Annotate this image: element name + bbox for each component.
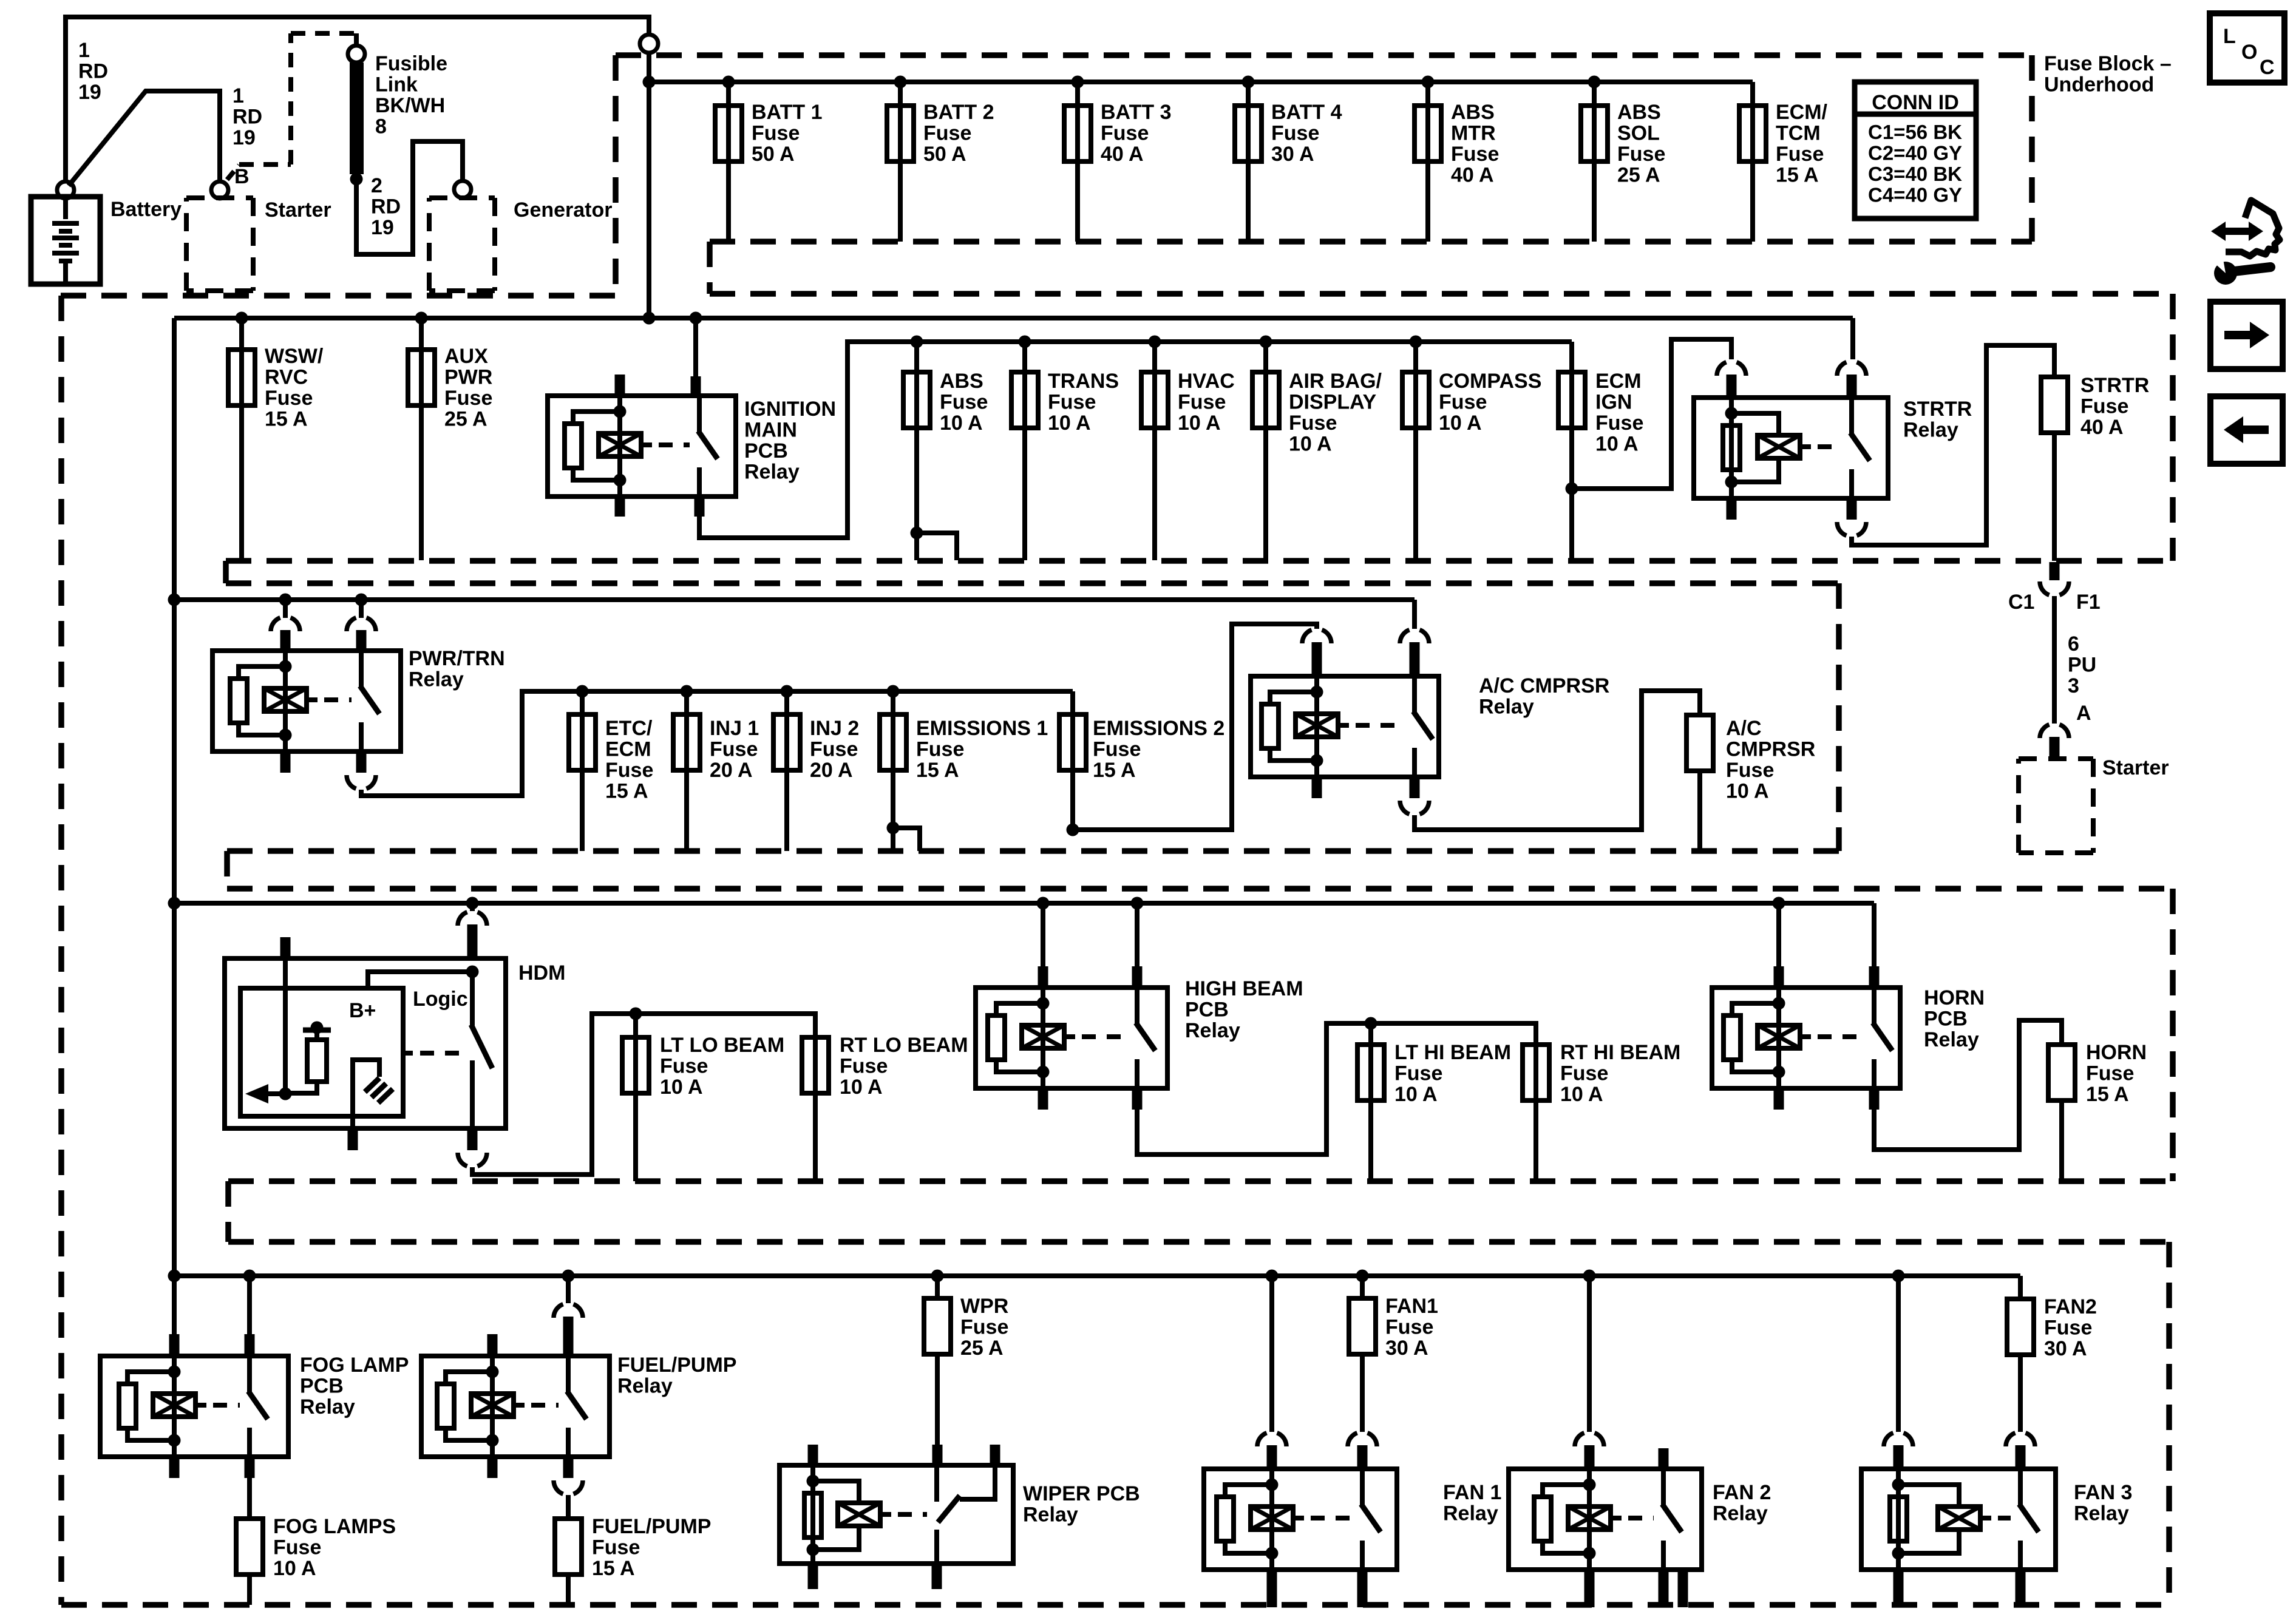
svg-text:30 A: 30 A [2044,1337,2087,1360]
svg-text:Fuse: Fuse [2086,1062,2134,1085]
svg-text:MTR: MTR [1451,122,1496,145]
svg-text:FOG LAMPS: FOG LAMPS [273,1515,396,1538]
svg-text:C1=56 BK: C1=56 BK [1868,121,1962,143]
svg-text:Fuse: Fuse [840,1055,888,1078]
svg-text:Fuse: Fuse [2044,1317,2092,1340]
svg-text:19: 19 [371,216,394,239]
svg-text:PWR: PWR [444,366,492,389]
svg-text:10 A: 10 A [1289,433,1332,456]
svg-text:15 A: 15 A [1093,759,1136,782]
svg-text:Starter: Starter [2102,756,2169,779]
svg-text:FUEL/PUMP: FUEL/PUMP [617,1354,736,1377]
svg-text:30 A: 30 A [1271,143,1314,166]
svg-text:AUX: AUX [444,345,488,368]
svg-text:30 A: 30 A [1385,1337,1428,1360]
svg-text:Relay: Relay [1903,419,1958,442]
svg-text:C3=40 BK: C3=40 BK [1868,163,1962,185]
svg-text:20 A: 20 A [810,759,853,782]
svg-text:Relay: Relay [1479,696,1534,719]
svg-text:Relay: Relay [744,461,800,484]
svg-text:C: C [2260,56,2275,79]
svg-text:15 A: 15 A [1776,164,1819,187]
svg-text:Fuse: Fuse [273,1536,321,1559]
svg-text:Fuse Block –: Fuse Block – [2044,52,2172,75]
svg-text:40 A: 40 A [1451,164,1494,187]
svg-text:BATT 1: BATT 1 [752,101,822,124]
svg-text:B: B [234,165,250,188]
svg-text:Fuse: Fuse [940,391,988,414]
svg-text:Fuse: Fuse [1439,391,1487,414]
svg-text:ABS: ABS [1451,101,1495,124]
svg-text:Fuse: Fuse [1595,412,1643,435]
svg-text:Fuse: Fuse [1385,1316,1433,1339]
svg-text:10 A: 10 A [273,1557,316,1580]
svg-text:C2=40 GY: C2=40 GY [1868,142,1962,164]
svg-text:RT LO BEAM: RT LO BEAM [840,1034,968,1057]
svg-text:Fuse: Fuse [1048,391,1096,414]
svg-text:Fuse: Fuse [1178,391,1226,414]
svg-text:INJ 1: INJ 1 [710,717,759,740]
svg-text:10 A: 10 A [1439,412,1482,435]
svg-text:15 A: 15 A [592,1557,635,1580]
svg-text:RT HI BEAM: RT HI BEAM [1560,1041,1680,1064]
svg-text:RVC: RVC [265,366,308,389]
svg-text:Fuse: Fuse [1451,143,1499,166]
svg-text:FAN 3: FAN 3 [2074,1481,2132,1504]
svg-text:2: 2 [371,174,382,197]
svg-text:Fuse: Fuse [1560,1062,1608,1085]
svg-text:ABS: ABS [1617,101,1661,124]
svg-text:FUEL/PUMP: FUEL/PUMP [592,1515,711,1538]
svg-text:L: L [2223,25,2236,48]
svg-text:STRTR: STRTR [2080,374,2149,397]
svg-text:Fuse: Fuse [1776,143,1824,166]
svg-text:6: 6 [2068,632,2079,656]
svg-text:15 A: 15 A [916,759,959,782]
svg-text:15 A: 15 A [2086,1083,2129,1106]
svg-text:Underhood: Underhood [2044,73,2154,97]
svg-text:TRANS: TRANS [1048,370,1119,393]
svg-text:FAN 1: FAN 1 [1443,1481,1501,1504]
svg-text:Relay: Relay [1924,1028,1979,1051]
svg-text:15 A: 15 A [605,780,648,803]
svg-text:FAN 2: FAN 2 [1713,1481,1771,1504]
svg-text:PCB: PCB [300,1375,344,1398]
svg-text:IGN: IGN [1595,391,1632,414]
svg-text:WSW/: WSW/ [265,345,324,368]
svg-text:25 A: 25 A [1617,164,1660,187]
svg-text:10 A: 10 A [940,412,983,435]
svg-text:PWR/TRN: PWR/TRN [409,647,505,670]
svg-text:19: 19 [233,126,256,149]
svg-text:FAN1: FAN1 [1385,1295,1438,1318]
svg-text:B+: B+ [349,999,376,1022]
svg-text:Fuse: Fuse [810,738,858,761]
svg-text:Fusible: Fusible [375,52,447,75]
svg-text:50 A: 50 A [752,143,795,166]
svg-text:HORN: HORN [2086,1041,2147,1064]
svg-text:FOG LAMP: FOG LAMP [300,1354,409,1377]
svg-text:TCM: TCM [1776,122,1821,145]
svg-text:Fuse: Fuse [1289,412,1337,435]
svg-text:10 A: 10 A [660,1076,703,1099]
svg-text:RD: RD [371,195,401,219]
svg-text:Relay: Relay [1023,1503,1078,1527]
svg-text:Relay: Relay [617,1375,673,1398]
svg-text:MAIN: MAIN [744,419,797,442]
svg-text:RD: RD [78,60,108,83]
svg-text:Fuse: Fuse [923,122,971,145]
svg-text:15 A: 15 A [265,408,308,431]
svg-text:Relay: Relay [2074,1502,2129,1525]
svg-text:EMISSIONS 1: EMISSIONS 1 [916,717,1048,740]
svg-text:Fuse: Fuse [710,738,758,761]
svg-text:Link: Link [375,73,418,97]
svg-text:BATT 2: BATT 2 [923,101,994,124]
svg-text:Fuse: Fuse [1093,738,1141,761]
svg-text:BATT 3: BATT 3 [1101,101,1171,124]
svg-text:Relay: Relay [409,668,464,691]
svg-text:PCB: PCB [1924,1008,1968,1031]
svg-text:Relay: Relay [1185,1019,1240,1042]
svg-text:10 A: 10 A [1726,780,1769,803]
svg-text:20 A: 20 A [710,759,753,782]
svg-text:F1: F1 [2076,591,2101,614]
svg-text:Relay: Relay [300,1395,355,1419]
svg-text:WPR: WPR [960,1295,1008,1318]
svg-text:LT HI BEAM: LT HI BEAM [1394,1041,1511,1064]
svg-text:ETC/: ETC/ [605,717,653,740]
svg-text:10 A: 10 A [840,1076,883,1099]
svg-text:HORN: HORN [1924,986,1985,1009]
svg-text:Fuse: Fuse [592,1536,640,1559]
svg-text:10 A: 10 A [1595,433,1639,456]
svg-text:O: O [2241,41,2257,64]
svg-text:C4=40 GY: C4=40 GY [1868,184,1962,206]
svg-text:EMISSIONS 2: EMISSIONS 2 [1093,717,1224,740]
svg-text:COMPASS: COMPASS [1439,370,1541,393]
svg-text:HDM: HDM [518,961,565,985]
svg-text:A/C: A/C [1726,717,1762,740]
svg-text:8: 8 [375,115,387,138]
svg-text:PCB: PCB [1185,998,1229,1022]
svg-text:C1: C1 [2008,591,2034,614]
svg-text:BK/WH: BK/WH [375,94,445,117]
svg-text:Relay: Relay [1443,1502,1498,1525]
svg-text:HVAC: HVAC [1178,370,1235,393]
svg-text:LT LO BEAM: LT LO BEAM [660,1034,784,1057]
svg-text:10 A: 10 A [1048,412,1091,435]
svg-text:Fuse: Fuse [1394,1062,1442,1085]
svg-text:Generator: Generator [514,198,613,222]
svg-text:WIPER PCB: WIPER PCB [1023,1482,1140,1505]
svg-text:50 A: 50 A [923,143,966,166]
svg-text:Fuse: Fuse [605,759,653,782]
svg-text:1: 1 [233,84,244,107]
svg-text:Relay: Relay [1713,1502,1768,1525]
svg-text:Battery: Battery [110,198,182,221]
svg-text:RD: RD [233,106,262,129]
svg-text:ECM/: ECM/ [1776,101,1828,124]
svg-text:10 A: 10 A [1178,412,1221,435]
svg-text:SOL: SOL [1617,122,1660,145]
svg-text:ABS: ABS [940,370,983,393]
svg-text:25 A: 25 A [960,1337,1004,1360]
svg-text:INJ 2: INJ 2 [810,717,859,740]
svg-text:Fuse: Fuse [1726,759,1774,782]
svg-text:Fuse: Fuse [444,387,492,410]
svg-text:1: 1 [78,39,90,62]
svg-text:40 A: 40 A [1101,143,1144,166]
svg-text:PU: PU [2068,654,2096,677]
svg-text:Fuse: Fuse [660,1055,708,1078]
svg-text:10 A: 10 A [1394,1083,1438,1106]
svg-text:3: 3 [2068,674,2079,697]
svg-text:10 A: 10 A [1560,1083,1603,1106]
svg-text:Starter: Starter [265,198,331,222]
svg-text:IGNITION: IGNITION [744,398,836,421]
svg-text:DISPLAY: DISPLAY [1289,391,1377,414]
svg-text:STRTR: STRTR [1903,398,1972,421]
svg-text:Fuse: Fuse [1271,122,1319,145]
svg-text:ECM: ECM [605,738,651,761]
svg-text:PCB: PCB [744,439,788,463]
svg-text:AIR BAG/: AIR BAG/ [1289,370,1382,393]
svg-text:Fuse: Fuse [265,387,313,410]
svg-text:ECM: ECM [1595,370,1642,393]
svg-text:Fuse: Fuse [1101,122,1149,145]
svg-text:BATT 4: BATT 4 [1271,101,1342,124]
svg-text:Fuse: Fuse [960,1316,1008,1339]
svg-text:FAN2: FAN2 [2044,1295,2097,1318]
svg-text:Fuse: Fuse [916,738,964,761]
svg-text:40 A: 40 A [2080,416,2124,439]
svg-text:HIGH BEAM: HIGH BEAM [1185,977,1303,1000]
svg-text:A: A [2076,702,2091,725]
svg-text:19: 19 [78,81,101,104]
svg-text:25 A: 25 A [444,408,487,431]
svg-text:Fuse: Fuse [752,122,800,145]
svg-text:A/C CMPRSR: A/C CMPRSR [1479,674,1609,697]
svg-text:CONN ID: CONN ID [1872,91,1959,114]
svg-text:Fuse: Fuse [2080,395,2128,418]
svg-text:Fuse: Fuse [1617,143,1665,166]
svg-text:Logic: Logic [413,988,468,1011]
svg-text:CMPRSR: CMPRSR [1726,738,1815,761]
